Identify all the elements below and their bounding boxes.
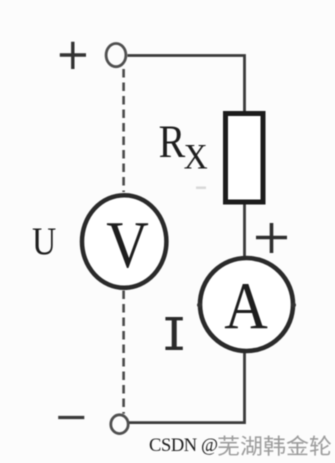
svg-text:A: A xyxy=(224,268,268,343)
svg-text:CSDN @: CSDN @ xyxy=(149,436,218,456)
svg-text:X: X xyxy=(184,138,208,177)
svg-text:R: R xyxy=(159,116,186,168)
svg-text:U: U xyxy=(32,220,56,263)
svg-text:V: V xyxy=(106,208,149,282)
